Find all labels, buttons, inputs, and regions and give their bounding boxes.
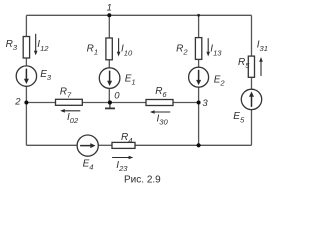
svg-text:E2: E2: [214, 74, 226, 87]
emf source E5: [241, 89, 261, 109]
wire left rail upper (top corner to R3): [25, 15, 27, 37]
svg-text:E5: E5: [233, 111, 245, 124]
node 3 junction dot: [197, 101, 201, 105]
svg-text:E3: E3: [40, 69, 52, 82]
wire R5 to E5: [251, 77, 253, 89]
resistor R6: [146, 100, 173, 106]
svg-text:E4: E4: [83, 158, 94, 171]
wire middle bus node2 to R7: [26, 102, 55, 104]
svg-text:I13: I13: [210, 44, 222, 58]
wire bottom bus right segment to right rail: [199, 144, 252, 146]
wire node 2 down to bottom-left corner: [25, 103, 27, 146]
current arrow I12: [34, 34, 38, 56]
svg-text:R6: R6: [155, 86, 167, 99]
svg-text:R3: R3: [6, 39, 18, 52]
resistor R4: [112, 142, 135, 148]
current arrow I10: [117, 38, 121, 56]
current arrow I13: [206, 38, 210, 56]
wire bottom bus left segment to E4: [26, 144, 77, 146]
svg-text:I12: I12: [37, 39, 49, 53]
emf source E4: [77, 135, 98, 156]
current arrow I30 (points left): [150, 110, 170, 114]
emf source E1: [99, 68, 120, 89]
svg-text:R7: R7: [60, 87, 72, 100]
wire top bus drop to R2: [198, 15, 200, 37]
svg-text:E1: E1: [125, 74, 136, 87]
wire node 3 down to bottom bus: [198, 103, 200, 146]
wire E2 to node 3: [198, 87, 200, 102]
wire R1 to E1: [108, 60, 110, 68]
resistor R1: [106, 38, 112, 60]
svg-text:R2: R2: [176, 44, 188, 57]
wire E4 to R4: [98, 144, 112, 146]
current arrow I31 (points up): [259, 57, 263, 76]
resistor R5: [248, 56, 254, 77]
junction dot top bus above R2: [197, 14, 200, 17]
emf source E2: [189, 67, 209, 87]
current arrow I23 (points right): [112, 156, 133, 160]
wire top bus from node above R3 to right rail: [26, 14, 251, 16]
svg-text:R1: R1: [87, 44, 98, 57]
svg-text:3: 3: [202, 98, 208, 109]
resistor R7: [56, 99, 83, 105]
wire R2 to E2: [198, 60, 200, 68]
svg-text:I31: I31: [257, 40, 268, 53]
wire R3 to E3: [25, 58, 27, 66]
resistor R2: [195, 38, 201, 60]
wire E1 to node 0: [108, 88, 110, 102]
ground symbol at node 0: [105, 103, 115, 109]
wire E3 to node 2: [25, 86, 27, 102]
svg-text:1: 1: [107, 3, 112, 14]
wire node 1 drop to R1: [108, 15, 110, 38]
wire middle bus R7 to node 0 to R6: [82, 102, 146, 104]
wire right rail top corner to R5: [251, 15, 253, 56]
wire R4 to junction below node 3: [135, 144, 199, 146]
svg-text:I02: I02: [67, 112, 79, 125]
svg-text:I23: I23: [116, 160, 128, 173]
junction dot bottom bus below node 3: [197, 143, 201, 147]
node 1 junction dot: [107, 13, 111, 17]
svg-text:I10: I10: [121, 44, 133, 58]
node 0 junction dot: [108, 100, 112, 104]
current arrow I02 (points left): [60, 109, 80, 113]
svg-text:Рис. 2.9: Рис. 2.9: [124, 175, 161, 186]
svg-text:I30: I30: [157, 113, 169, 126]
wire E5 to bottom-right corner: [251, 110, 253, 146]
svg-text:2: 2: [14, 96, 21, 107]
resistor R3: [23, 37, 29, 59]
node 2 junction dot: [24, 101, 28, 105]
emf source E3: [16, 66, 36, 86]
svg-text:0: 0: [114, 91, 120, 102]
wire middle bus R6 to node 3: [173, 102, 199, 104]
